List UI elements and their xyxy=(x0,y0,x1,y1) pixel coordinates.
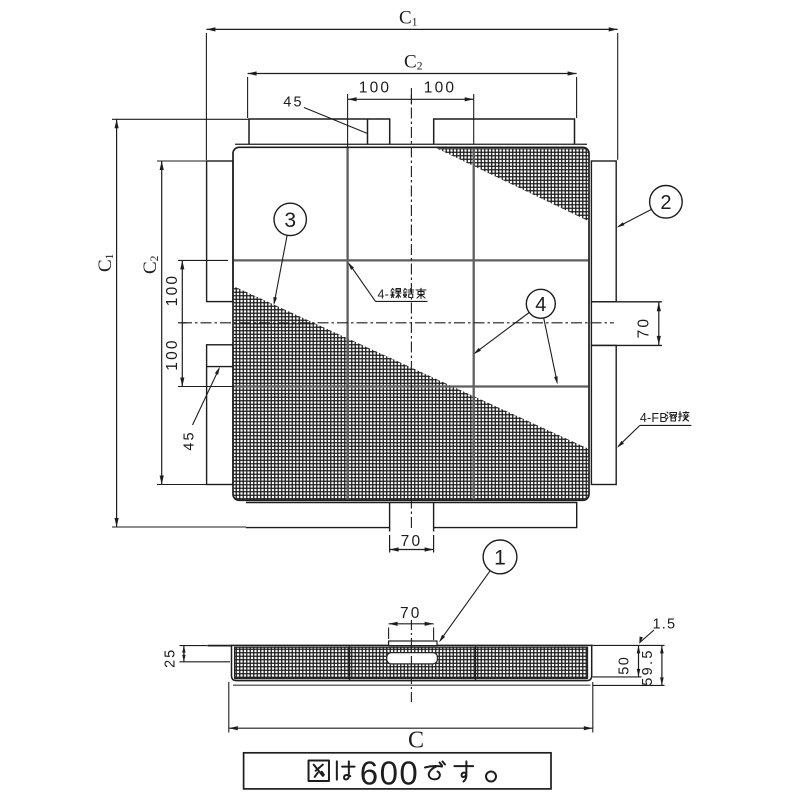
svg-text:70: 70 xyxy=(400,605,422,622)
svg-text:4: 4 xyxy=(535,294,546,316)
svg-text:C: C xyxy=(408,728,424,754)
svg-text:100: 100 xyxy=(424,80,456,97)
svg-text:50: 50 xyxy=(617,656,633,675)
svg-text:2: 2 xyxy=(660,192,671,214)
svg-text:4-FB: 4-FB xyxy=(640,411,668,425)
svg-text:70: 70 xyxy=(636,317,653,339)
svg-text:1.5: 1.5 xyxy=(653,617,677,633)
svg-text:45: 45 xyxy=(182,430,198,451)
svg-text:100: 100 xyxy=(164,274,181,306)
svg-text:600: 600 xyxy=(360,755,420,792)
svg-text:70: 70 xyxy=(401,533,423,550)
svg-text:1: 1 xyxy=(494,546,506,569)
svg-text:45: 45 xyxy=(283,95,304,111)
svg-text:4-: 4- xyxy=(378,288,390,302)
svg-text:25: 25 xyxy=(163,648,179,668)
svg-text:100: 100 xyxy=(164,338,181,370)
svg-text:59.5: 59.5 xyxy=(640,648,656,685)
svg-text:100: 100 xyxy=(359,80,391,97)
svg-text:3: 3 xyxy=(284,209,296,232)
